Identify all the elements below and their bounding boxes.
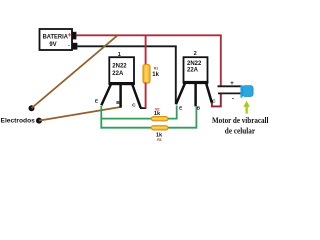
wire brown electrode 1 to V+ rail [32, 36, 118, 108]
resistor R3 [151, 126, 168, 130]
svg-text:B: B [116, 100, 120, 106]
svg-text:+: + [68, 32, 72, 39]
transistor Q1 collector leg [132, 85, 140, 108]
svg-text:C: C [132, 102, 136, 108]
battery BT1 box [40, 29, 73, 50]
svg-text:2N22: 2N22 [112, 63, 127, 69]
svg-text:2N22: 2N22 [187, 61, 202, 67]
battery plus terminal block [72, 32, 77, 40]
svg-text:9V: 9V [49, 42, 56, 48]
svg-text:+: + [230, 80, 234, 87]
svg-text:B: B [197, 106, 201, 112]
wire green Q1 emitter vertical [100, 106, 102, 129]
svg-text:-: - [68, 43, 70, 50]
wire maroon Q2 collector to motor minus [212, 94, 221, 107]
svg-text:Motor de vibracall: Motor de vibracall [212, 116, 269, 125]
wire black battery minus horizontal [77, 45, 176, 47]
wire green R3 right to Q2 base [168, 107, 196, 128]
svg-text:1k: 1k [154, 111, 161, 117]
electrode dot 1 [29, 105, 35, 111]
svg-text:2: 2 [194, 51, 197, 57]
svg-text:22A: 22A [187, 68, 199, 74]
motor M1 body [242, 86, 253, 97]
svg-text:de celular: de celular [225, 127, 256, 136]
wire black battery minus vertical to Q2 emitter [175, 46, 177, 104]
wire black jog Q1 collector to R1 [140, 107, 146, 109]
green arrow pointing to motor [244, 101, 250, 114]
svg-text:Electrodos: Electrodos [1, 117, 36, 124]
svg-text:R1: R1 [154, 67, 158, 71]
transistor Q1 base leg [119, 85, 122, 108]
svg-text:R3: R3 [157, 138, 161, 142]
wire green upper horizontal to R2 [101, 118, 152, 120]
svg-text:-: - [232, 96, 234, 103]
transistor Q2 collector leg [206, 83, 212, 103]
battery minus terminal block [72, 43, 78, 50]
wire green R2 right to Q2 emitter [168, 106, 177, 119]
svg-text:1: 1 [118, 52, 121, 58]
wire black motor plus line [218, 85, 242, 87]
transistor Q2 body [184, 57, 208, 82]
wire green lower horizontal to R3 [101, 127, 152, 129]
resistor R1 [143, 65, 150, 83]
wire red V+ rail vertical drop to motor [220, 35, 222, 86]
wire black motor minus line [218, 92, 242, 94]
transistor Q2 base leg [194, 83, 197, 106]
electrode dot 2 [36, 118, 42, 124]
wire brown electrode 2 to Q1 base [39, 107, 121, 121]
resistor R2 [151, 117, 168, 121]
wire red V+ rail horizontal [76, 34, 221, 36]
transistor Q1 bottom bar [109, 82, 135, 85]
motor M1 left tab [240, 85, 242, 98]
wire red R1 top [145, 35, 147, 65]
transistor Q1 emitter leg [101, 85, 111, 106]
transistor Q2 emitter leg [176, 83, 185, 104]
wire red R1 bottom to Q1 collector [145, 83, 147, 109]
transistor Q1 body [109, 57, 134, 83]
svg-text:BATERIA: BATERIA [43, 34, 69, 41]
transistor Q2 bottom bar [183, 81, 208, 84]
svg-text:1k: 1k [152, 72, 159, 78]
svg-text:22A: 22A [112, 71, 124, 77]
